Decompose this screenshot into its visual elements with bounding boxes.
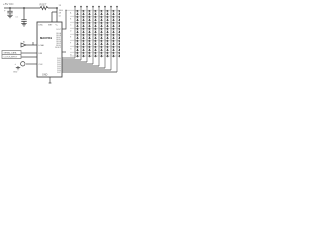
svg-text:SEGDP: SEGDP (55, 47, 62, 49)
svg-text:DIN: DIN (39, 53, 43, 55)
svg-text:14: 14 (59, 16, 61, 18)
svg-text:GND: GND (13, 72, 18, 74)
svg-text:DIG7: DIG7 (57, 72, 61, 74)
svg-text:SERIAL-DATA: SERIAL-DATA (4, 52, 17, 55)
svg-text:MAX7219: MAX7219 (40, 36, 52, 40)
svg-text:CLK: CLK (39, 64, 44, 66)
svg-text:CLOCK-INPUT: CLOCK-INPUT (4, 57, 18, 59)
svg-text:LOAD: LOAD (39, 44, 45, 47)
svg-text:A1: A1 (23, 41, 25, 44)
svg-text:RSET: RSET (40, 2, 47, 6)
svg-text:GND: GND (42, 74, 48, 77)
svg-text:+5V DC: +5V DC (3, 2, 14, 6)
svg-text:ISET: ISET (48, 24, 53, 26)
svg-text:DNC: DNC (39, 24, 44, 26)
svg-text:SEG: SEG (59, 10, 64, 12)
svg-text:DOUT: DOUT (56, 29, 61, 31)
